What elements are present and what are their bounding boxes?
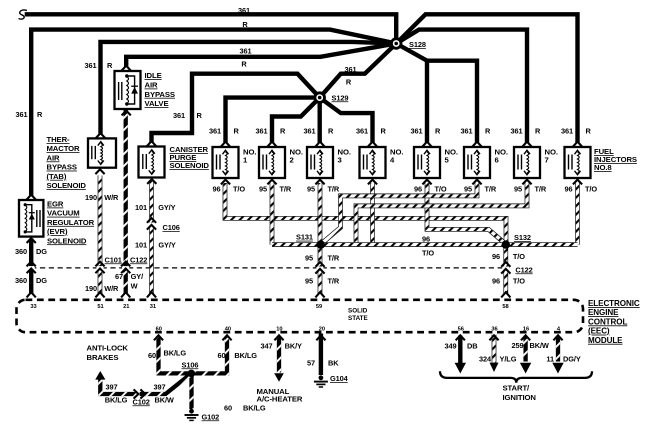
svg-text:GY/Y: GY/Y — [158, 203, 175, 212]
svg-text:R: R — [280, 127, 286, 136]
svg-text:BK/W: BK/W — [155, 396, 174, 405]
svg-text:2: 2 — [290, 156, 294, 165]
svg-text:57: 57 — [307, 358, 315, 367]
svg-text:R: R — [197, 111, 203, 120]
svg-text:ANTI-LOCK: ANTI-LOCK — [87, 344, 129, 353]
svg-text:BRAKES: BRAKES — [87, 353, 119, 362]
svg-text:R: R — [242, 20, 248, 29]
svg-text:EGR: EGR — [47, 200, 64, 209]
svg-text:THER-: THER- — [47, 135, 71, 144]
svg-text:Y/LG: Y/LG — [500, 355, 517, 364]
svg-text:MACTOR: MACTOR — [47, 144, 81, 153]
svg-text:361: 361 — [344, 65, 356, 74]
svg-text:361: 361 — [356, 127, 368, 136]
svg-text:R: R — [241, 60, 247, 69]
svg-text:60: 60 — [156, 327, 162, 333]
svg-text:R: R — [234, 127, 240, 136]
svg-text:R: R — [346, 78, 352, 87]
svg-text:CONTROL: CONTROL — [588, 317, 627, 326]
svg-text:361: 361 — [15, 110, 27, 119]
svg-text:S132: S132 — [514, 233, 531, 242]
svg-text:DG: DG — [36, 276, 47, 285]
svg-text:SOLENOID: SOLENOID — [170, 161, 210, 170]
svg-text:R: R — [328, 127, 334, 136]
svg-text:SOLID: SOLID — [348, 308, 368, 315]
svg-text:361: 361 — [303, 127, 315, 136]
svg-text:360: 360 — [15, 276, 27, 285]
svg-text:96: 96 — [414, 184, 422, 193]
svg-text:96: 96 — [212, 184, 220, 193]
svg-text:360: 360 — [15, 247, 27, 256]
svg-text:ELECTRONIC: ELECTRONIC — [588, 299, 640, 308]
svg-text:361: 361 — [561, 127, 573, 136]
svg-text:G104: G104 — [330, 374, 349, 383]
svg-text:95: 95 — [305, 276, 313, 285]
svg-text:67: 67 — [115, 272, 123, 281]
svg-text:361: 361 — [239, 46, 251, 55]
svg-text:190: 190 — [85, 284, 97, 293]
svg-text:347: 347 — [260, 342, 272, 351]
svg-text:33: 33 — [30, 304, 36, 310]
svg-text:BK/W: BK/W — [530, 341, 549, 350]
svg-text:S131: S131 — [296, 233, 313, 242]
svg-text:T/R: T/R — [485, 184, 497, 193]
svg-text:R: R — [37, 110, 43, 119]
svg-text:T/R: T/R — [280, 184, 292, 193]
svg-text:BK/LG: BK/LG — [164, 349, 187, 358]
svg-text:101: 101 — [135, 203, 147, 212]
svg-text:START/: START/ — [503, 383, 531, 392]
svg-text:R: R — [586, 127, 592, 136]
svg-text:AIR: AIR — [145, 81, 158, 90]
svg-text:397: 397 — [153, 382, 165, 391]
svg-text:(EEC): (EEC) — [588, 327, 610, 336]
svg-text:G102: G102 — [202, 412, 220, 421]
svg-text:A/C-HEATER: A/C-HEATER — [257, 395, 303, 404]
svg-text:58: 58 — [502, 304, 508, 310]
svg-text:T/R: T/R — [328, 184, 340, 193]
svg-text:GY/Y: GY/Y — [158, 241, 175, 250]
svg-text:95: 95 — [305, 253, 313, 262]
svg-text:BK: BK — [328, 358, 339, 367]
svg-text:T/R: T/R — [328, 276, 340, 285]
svg-text:11: 11 — [546, 355, 554, 364]
svg-text:VACUUM: VACUUM — [47, 209, 80, 218]
svg-text:95: 95 — [259, 184, 267, 193]
svg-text:W/R: W/R — [104, 284, 119, 293]
svg-text:C102: C102 — [133, 397, 150, 406]
svg-text:59: 59 — [316, 304, 322, 310]
svg-text:397: 397 — [105, 382, 117, 391]
svg-text:REGULATOR: REGULATOR — [47, 218, 95, 227]
svg-text:R: R — [485, 127, 491, 136]
svg-text:C122: C122 — [515, 265, 532, 274]
svg-text:T/R: T/R — [535, 184, 547, 193]
svg-text:51: 51 — [97, 304, 103, 310]
svg-text:DG: DG — [36, 247, 47, 256]
svg-text:361: 361 — [255, 127, 267, 136]
svg-text:BYPASS: BYPASS — [145, 90, 175, 99]
svg-text:349: 349 — [444, 342, 456, 351]
svg-text:SOLENOID: SOLENOID — [47, 236, 87, 245]
svg-text:60: 60 — [217, 351, 225, 360]
svg-text:VALVE: VALVE — [145, 99, 169, 108]
svg-text:T/O: T/O — [435, 184, 447, 193]
svg-text:BYPASS: BYPASS — [47, 163, 77, 172]
svg-text:96: 96 — [492, 252, 500, 261]
svg-text:7: 7 — [545, 156, 549, 165]
svg-text:W: W — [131, 282, 138, 291]
svg-text:259: 259 — [511, 341, 523, 350]
svg-text:361: 361 — [410, 127, 422, 136]
svg-text:BK/LG: BK/LG — [243, 404, 266, 413]
svg-text:AIR: AIR — [47, 153, 60, 162]
svg-text:361: 361 — [209, 127, 221, 136]
svg-text:95: 95 — [464, 184, 472, 193]
svg-text:190: 190 — [85, 193, 97, 202]
svg-text:6: 6 — [495, 156, 499, 165]
svg-text:20: 20 — [319, 327, 325, 333]
svg-text:3: 3 — [338, 156, 342, 165]
svg-text:R: R — [435, 127, 441, 136]
svg-text:BK/LG: BK/LG — [105, 396, 128, 405]
svg-text:R: R — [107, 61, 113, 70]
svg-text:IDLE: IDLE — [145, 71, 162, 80]
svg-text:NO.8: NO.8 — [594, 163, 612, 172]
svg-text:C101: C101 — [105, 255, 122, 264]
svg-text:361: 361 — [84, 61, 96, 70]
svg-text:(EVR): (EVR) — [47, 227, 68, 236]
svg-text:36: 36 — [491, 327, 497, 333]
svg-text:ENGINE: ENGINE — [588, 308, 619, 317]
svg-text:BK/Y: BK/Y — [285, 342, 302, 351]
svg-text:60: 60 — [224, 404, 232, 413]
svg-text:C106: C106 — [163, 223, 180, 232]
svg-text:MODULE: MODULE — [588, 336, 623, 345]
svg-text:16: 16 — [523, 327, 529, 333]
svg-text:95: 95 — [307, 184, 315, 193]
svg-text:BK/LG: BK/LG — [234, 351, 257, 360]
svg-text:T/R: T/R — [328, 253, 340, 262]
svg-text:T/O: T/O — [513, 252, 525, 261]
svg-text:60: 60 — [148, 351, 156, 360]
svg-text:T/O: T/O — [422, 248, 434, 257]
svg-text:S129: S129 — [332, 93, 349, 102]
svg-text:361: 361 — [173, 111, 185, 120]
svg-text:21: 21 — [123, 304, 129, 310]
svg-text:31: 31 — [150, 304, 156, 310]
svg-text:S106: S106 — [182, 360, 199, 369]
svg-text:40: 40 — [225, 327, 231, 333]
svg-text:W/R: W/R — [104, 193, 119, 202]
svg-text:(TAB): (TAB) — [47, 172, 67, 181]
svg-text:101: 101 — [135, 241, 147, 250]
svg-text:R: R — [381, 127, 387, 136]
svg-text:DG/Y: DG/Y — [563, 355, 581, 364]
svg-text:R: R — [535, 127, 541, 136]
svg-text:C122: C122 — [130, 255, 147, 264]
svg-text:GY/: GY/ — [131, 272, 143, 281]
svg-text:96: 96 — [422, 235, 430, 244]
svg-text:96: 96 — [564, 184, 572, 193]
svg-text:361: 361 — [238, 6, 250, 15]
svg-text:STATE: STATE — [348, 315, 368, 322]
svg-text:96: 96 — [492, 277, 500, 286]
svg-text:T/O: T/O — [585, 184, 597, 193]
svg-text:T/O: T/O — [233, 184, 245, 193]
svg-text:SOLENOID: SOLENOID — [47, 181, 87, 190]
svg-text:56: 56 — [458, 327, 464, 333]
svg-text:361: 361 — [510, 127, 522, 136]
svg-text:361: 361 — [460, 127, 472, 136]
svg-text:S128: S128 — [409, 40, 426, 49]
svg-text:IGNITION: IGNITION — [503, 393, 537, 402]
svg-text:T/O: T/O — [513, 277, 525, 286]
svg-text:DB: DB — [467, 342, 477, 351]
svg-text:10: 10 — [276, 327, 282, 333]
svg-text:324: 324 — [479, 355, 492, 364]
svg-text:95: 95 — [514, 184, 522, 193]
